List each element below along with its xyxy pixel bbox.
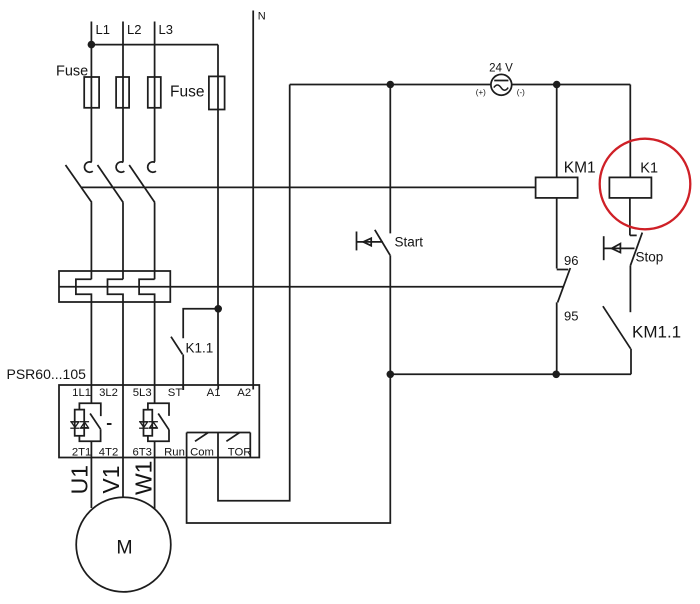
svg-text:4T2: 4T2 bbox=[99, 447, 118, 459]
svg-text:(-): (-) bbox=[517, 88, 525, 97]
svg-text:TOR: TOR bbox=[228, 447, 252, 459]
svg-text:Fuse: Fuse bbox=[56, 64, 88, 80]
svg-text:(+): (+) bbox=[476, 88, 486, 97]
svg-text:A2: A2 bbox=[237, 387, 251, 399]
svg-text:M: M bbox=[116, 537, 132, 559]
svg-text:K1.1: K1.1 bbox=[186, 341, 214, 356]
svg-text:6T3: 6T3 bbox=[132, 447, 151, 459]
svg-text:K1: K1 bbox=[640, 161, 658, 177]
svg-text:95: 95 bbox=[564, 309, 578, 324]
svg-text:L2: L2 bbox=[127, 22, 141, 37]
svg-text:Run: Run bbox=[164, 447, 185, 459]
svg-text:L1: L1 bbox=[96, 22, 110, 37]
svg-text:KM1: KM1 bbox=[564, 160, 596, 177]
svg-text:96: 96 bbox=[564, 253, 578, 268]
svg-text:Fuse: Fuse bbox=[170, 84, 204, 101]
svg-text:24 V: 24 V bbox=[489, 63, 513, 75]
svg-text:V1: V1 bbox=[98, 465, 124, 493]
svg-text:A1: A1 bbox=[207, 387, 221, 399]
svg-text:N: N bbox=[258, 11, 266, 23]
svg-text:3L2: 3L2 bbox=[99, 387, 118, 399]
svg-text:2T1: 2T1 bbox=[72, 447, 91, 459]
svg-text:Com: Com bbox=[190, 447, 214, 459]
svg-text:Stop: Stop bbox=[636, 250, 664, 265]
svg-text:ST: ST bbox=[168, 387, 183, 399]
svg-text:5L3: 5L3 bbox=[133, 387, 152, 399]
svg-text:Start: Start bbox=[395, 235, 424, 250]
svg-text:1L1: 1L1 bbox=[72, 387, 91, 399]
svg-text:W1: W1 bbox=[131, 461, 157, 496]
svg-text:U1: U1 bbox=[67, 465, 93, 494]
svg-text:L3: L3 bbox=[159, 22, 173, 37]
svg-text:KM1.1: KM1.1 bbox=[632, 323, 681, 342]
svg-text:PSR60...105: PSR60...105 bbox=[7, 366, 87, 382]
